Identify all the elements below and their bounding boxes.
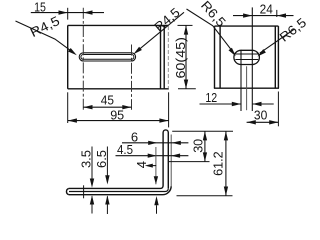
dim 30 line: [247, 121, 279, 123]
slot left centerline: [82, 8, 84, 110]
svg-text:95: 95: [110, 108, 124, 123]
view1 bend line 1: [160, 25, 162, 88]
view2 obround chord lower: [235, 59, 258, 61]
dim 4 left-pointing arrow: [145, 164, 153, 168]
dim 95 right extension: [168, 92, 170, 127]
dim 6 left arrow (outside): [148, 141, 157, 145]
dim 15 left extension: [67, 8, 69, 20]
view2 left outer edge: [214, 26, 216, 88]
view3 band top line + inner fillet: [69, 186, 163, 189]
view1 right flange edge (faint): [167, 26, 169, 89]
view2 obround hole outer: [234, 50, 260, 64]
dim 45 right arrow: [122, 105, 131, 109]
slot right centerline: [131, 45, 133, 110]
svg-text:6.5: 6.5: [94, 150, 109, 168]
view2 bottom edge: [214, 87, 279, 89]
svg-text:24: 24: [260, 2, 273, 17]
svg-text:15: 15: [34, 0, 46, 15]
dim 95 left arrow: [68, 118, 77, 122]
view1 bottom edge: [68, 88, 169, 90]
dim 4.5 left arrow: [148, 154, 157, 158]
leader R4,5 left: [16, 21, 75, 53]
dim 45 line: [83, 106, 131, 108]
view2 obround chord upper: [235, 53, 258, 55]
dim 61.2 up arrow: [224, 131, 228, 140]
dim 95 left extension: [67, 92, 69, 123]
dim 30 v3 down arrow: [203, 152, 207, 161]
dim 4 horizontal stub: [151, 165, 157, 167]
view2 right outer edge: [277, 26, 279, 88]
dim 6.5 stem below: [106, 196, 108, 214]
svg-text:12: 12: [205, 90, 217, 105]
dim 30 right arrow: [269, 120, 278, 124]
view2 left inner edge: [219, 26, 221, 88]
view2 top edge: [215, 25, 279, 27]
svg-text:3.5: 3.5: [78, 150, 93, 168]
dim 3.5 down arrow: [90, 179, 94, 188]
view3 leg outer faint line: [170, 135, 172, 187]
leader R4,5 left arrow: [68, 48, 77, 55]
dim 30 left arrow: [247, 120, 256, 124]
view3 bottom extension line: [177, 195, 233, 197]
svg-text:30: 30: [254, 108, 267, 123]
dim 30 v3 up arrow: [203, 131, 207, 140]
view1 bend line 2: [163, 25, 165, 88]
view3 mid extension line: [169, 161, 210, 163]
leader R4,5 right arrow: [133, 47, 142, 55]
dim 24 left arrow (outside): [243, 13, 252, 17]
view3 corner bottom stem: [156, 205, 158, 214]
dim 3.5 stem below: [91, 196, 93, 213]
leader R6,5 right arrow: [257, 49, 266, 56]
dim 61.2 down arrow: [224, 187, 228, 196]
svg-text:30: 30: [191, 139, 206, 153]
view3 leg outline with top cap: [163, 130, 168, 188]
view3 top extension line: [172, 130, 233, 132]
dim 30 right extension: [277, 92, 279, 127]
dim 95 line: [68, 120, 169, 122]
dim 3.5 up arrow: [90, 195, 94, 204]
dim 6.5 stem above: [106, 147, 108, 177]
view1 slot inner obround: [81, 55, 134, 60]
obround right cap centerline / dim24 ext: [251, 7, 253, 111]
svg-text:61.2: 61.2: [210, 151, 225, 176]
view1 left edge: [67, 25, 69, 88]
dim 45 left arrow: [83, 105, 92, 109]
dim 61.2 line: [225, 131, 227, 196]
svg-text:4.5: 4.5: [117, 142, 133, 157]
dim 24 right arrow (outside): [277, 13, 286, 17]
view1 slot outer obround: [79, 53, 135, 61]
view3 band bottom line + outer corner arc: [69, 186, 171, 195]
dim 60(45) bottom arrow: [184, 80, 188, 89]
dim 15 arrow right-pointing: [59, 10, 68, 14]
leader R6,5 left: [187, 9, 234, 53]
dim 12 right arrow (outside): [252, 102, 261, 106]
dim 60(45) top extension: [178, 24, 193, 26]
dim 60(45) bottom extension: [178, 88, 196, 90]
dim 15 line: [31, 12, 104, 14]
dim 60(45) top arrow: [184, 25, 188, 34]
dim 6 right arrow (outside): [172, 141, 181, 145]
view3 tick on band: [83, 185, 85, 198]
svg-text:45: 45: [101, 93, 114, 108]
svg-text:4: 4: [134, 161, 149, 168]
dim 24 line: [233, 15, 294, 17]
leader R4,5 right: [136, 12, 184, 52]
dim 4.5 line: [116, 155, 189, 157]
dim 24 right extension tick: [276, 10, 278, 17]
dim 4 extension line: [155, 147, 157, 184]
view3 corner up arrow: [154, 196, 158, 205]
dim 30 v3 line: [204, 131, 206, 161]
view1 top edge: [68, 24, 169, 26]
leader R6,5 left arrow: [229, 48, 236, 57]
dim 6.5 down arrow: [105, 175, 109, 184]
obround left cap centerline: [240, 50, 242, 111]
dim 4.5 right arrow: [171, 154, 180, 158]
view3 band left cap: [66, 188, 68, 194]
dim 3.5 stem above: [91, 147, 93, 180]
dim 95 right arrow: [159, 118, 168, 122]
view2 right inner edge: [274, 26, 276, 88]
dim 15 arrow left-pointing: [83, 10, 92, 14]
leader R6,5 right: [260, 29, 295, 53]
svg-text:60(45): 60(45): [174, 37, 188, 79]
dim 60(45) line: [185, 25, 187, 88]
dim 4 down arrow: [154, 176, 158, 184]
dim 12 left arrow (outside): [232, 102, 241, 106]
view3 band mid line + fillet: [69, 188, 168, 191]
obround center line (faint): [246, 66, 248, 110]
dim 12 line right part: [252, 103, 273, 105]
dim 12 line left part: [200, 103, 242, 105]
dim 6 line: [122, 142, 188, 144]
dim 6.5 up arrow: [105, 195, 109, 204]
